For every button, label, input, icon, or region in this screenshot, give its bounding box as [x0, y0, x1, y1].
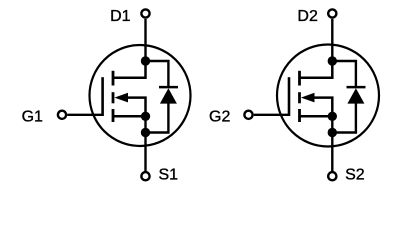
source stub Q1	[113, 115, 146, 118]
drain stub Q1	[113, 61, 146, 78]
channel dash top Q1	[112, 71, 115, 86]
junction dot source Q2	[328, 112, 337, 121]
junction dot source Q1	[141, 112, 150, 121]
wire diode bottom Q2	[332, 103, 356, 133]
terminal D1	[141, 9, 149, 17]
junction dot drain Q2	[328, 56, 337, 65]
body arrow Q2	[301, 93, 315, 103]
source stub Q2	[300, 115, 333, 118]
svg-text:D2: D2	[297, 8, 318, 25]
terminal S1	[141, 172, 149, 180]
wire gate G1	[67, 114, 103, 116]
svg-text:S1: S1	[159, 166, 179, 183]
gate plate Q2	[288, 77, 291, 116]
channel dash bottom Q2	[298, 109, 301, 122]
terminal G1	[58, 111, 66, 119]
terminal S2	[328, 172, 336, 180]
gate plate Q1	[101, 77, 104, 116]
body diode cathode bar Q1	[159, 86, 178, 89]
junction dot source-diode Q1	[141, 128, 150, 137]
transistor Q1 body circle	[90, 45, 191, 146]
wire diode top Q2	[332, 61, 356, 87]
wire source S2	[331, 133, 333, 172]
channel dash middle Q1	[112, 92, 115, 103]
svg-text:G1: G1	[22, 108, 43, 125]
channel dash top Q2	[298, 71, 301, 86]
svg-text:S2: S2	[345, 166, 365, 183]
svg-text:D1: D1	[110, 8, 131, 25]
body stub Q2	[313, 98, 333, 117]
body diode triangle Q1	[160, 88, 177, 103]
junction dot drain Q1	[141, 56, 150, 65]
body diode cathode bar Q2	[347, 86, 366, 89]
body arrow Q1	[114, 93, 128, 103]
wire diode top Q1	[146, 61, 169, 87]
terminal D2	[328, 9, 336, 17]
svg-text:G2: G2	[209, 108, 230, 125]
wire diode bottom Q1	[146, 103, 169, 133]
body diode triangle Q2	[347, 88, 364, 103]
wire gate G2	[254, 114, 290, 116]
wire source S1	[144, 133, 146, 172]
channel dash bottom Q1	[112, 109, 115, 122]
terminal G2	[244, 111, 252, 119]
transistor Q2 body circle	[277, 45, 379, 147]
channel dash middle Q2	[298, 92, 301, 103]
drain stub Q2	[300, 61, 333, 78]
wire source junctions Q2	[331, 116, 333, 132]
wire drain D1 to junction	[144, 19, 146, 61]
junction dot source-diode Q2	[328, 128, 337, 137]
body stub Q1	[126, 98, 146, 117]
wire source junctions Q1	[144, 116, 146, 132]
wire drain D2 to junction	[331, 19, 333, 61]
